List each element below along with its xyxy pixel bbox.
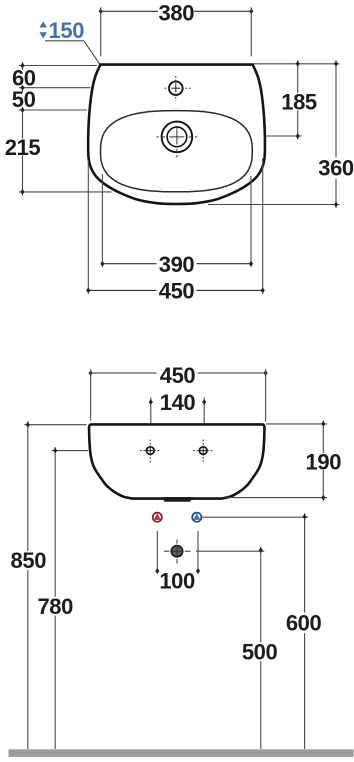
dim 780 vertical line (54, 447, 56, 597)
left reference line y88 (tap centre) (19, 87, 91, 89)
drain crosshair vertical (176, 121, 178, 123)
dim 190 vertical line (322, 420, 324, 453)
drain height extension line y551 (196, 550, 264, 552)
svg-text:150: 150 (49, 18, 85, 43)
siphon tab under basin (162, 497, 194, 502)
dim 850 extension y425 (24, 424, 86, 426)
svg-text:190: 190 (306, 449, 342, 474)
mounting hole left (147, 447, 155, 455)
svg-text:780: 780 (37, 594, 73, 619)
supply height extension line y517 (202, 516, 308, 518)
dim 360 vertical line (335, 60, 337, 157)
dim 390 line (102, 263, 156, 265)
label 150 arrow icon (39, 22, 47, 39)
right extension line y64 (254, 63, 340, 65)
dim 185 vertical line (297, 60, 299, 93)
drain pipe circle (171, 546, 182, 557)
drain crosshair horizontal (157, 136, 159, 138)
dim 100 extension lines (156, 531, 158, 574)
svg-text:390: 390 (159, 252, 195, 277)
dim 360 extension bottom y204 (208, 204, 340, 206)
dim 185 extension bottom y136 (266, 135, 302, 137)
dim 450 extension lines (front view) (90, 369, 92, 420)
svg-text:360: 360 (318, 156, 354, 181)
svg-text:185: 185 (281, 90, 317, 115)
dim 380 line (101, 10, 158, 12)
svg-text:450: 450 (159, 279, 195, 304)
drain inner circle (167, 127, 187, 147)
svg-text:380: 380 (159, 0, 195, 25)
faucet hole crosshair (165, 87, 191, 89)
dim 600 vertical line (304, 513, 306, 612)
dim 780 extension y450.6 (52, 450, 88, 452)
left reference line y192 (bowl bottom) (19, 191, 112, 193)
hot water supply symbol (red) (153, 513, 162, 522)
svg-text:215: 215 (5, 135, 41, 160)
left reference line y110 (bowl edge) (19, 109, 87, 111)
cold water supply symbol (blue) (192, 513, 201, 522)
dim 390 extension lines (101, 174, 103, 267)
svg-text:450: 450 (160, 363, 196, 388)
dim 450 line (front view) (91, 372, 157, 374)
drain outer circle (162, 122, 193, 153)
drain pipe crosshair (171, 550, 183, 552)
label 150 leader line (45, 41, 130, 114)
svg-text:50: 50 (12, 87, 36, 112)
dim 140 extension lines (150, 398, 152, 424)
washbasin front view outline (89, 424, 265, 498)
dim 190 extension bottom y497.6 (226, 497, 327, 499)
mounting hole right (199, 447, 207, 455)
dim 450 extension lines (top view) (87, 160, 89, 294)
svg-text:850: 850 (11, 548, 47, 573)
left vertical dimension line x22.5 (22, 62, 24, 70)
washbasin inner bowl oval (101, 111, 253, 192)
dim 190 extension top y424 (266, 423, 327, 425)
svg-text:100: 100 (159, 569, 195, 594)
dim 450 line (top view) (88, 289, 156, 291)
svg-text:600: 600 (286, 611, 322, 636)
faucet hole circle (169, 81, 183, 95)
dim 380 extension lines (100, 7, 102, 56)
svg-text:500: 500 (242, 640, 278, 665)
left reference line y65 (rim top) (19, 65, 97, 67)
dim 500 vertical line (260, 547, 262, 643)
floor bar (9, 749, 354, 757)
svg-text:140: 140 (160, 390, 196, 415)
dim 850 vertical line (27, 421, 29, 551)
washbasin top view outer outline (88, 65, 265, 204)
